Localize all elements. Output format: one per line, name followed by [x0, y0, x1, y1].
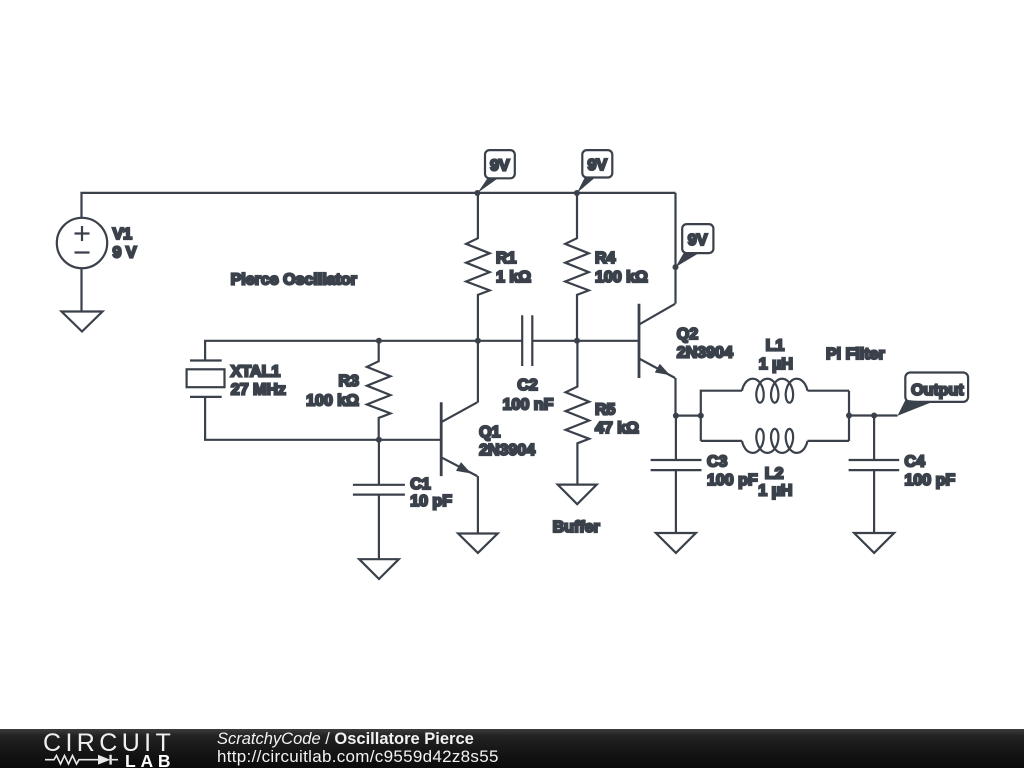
svg-text:47 kΩ: 47 kΩ [595, 420, 639, 437]
resistor R3 [367, 341, 391, 440]
crystal XTAL1 [187, 361, 225, 397]
wire XTAL1 bottom [205, 397, 441, 440]
flag Output [898, 373, 969, 416]
ground under C1 [359, 559, 399, 579]
flag 9V at R4 [577, 150, 612, 193]
voltage source V1 [57, 218, 107, 268]
svg-text:9V: 9V [588, 157, 608, 174]
node Q2 collector flag [673, 264, 679, 270]
svg-text:2N3904: 2N3904 [479, 442, 535, 459]
wire top rail [82, 193, 676, 218]
svg-text:27 MHz: 27 MHz [231, 381, 286, 398]
svg-text:Output: Output [911, 382, 964, 399]
svg-text:L1: L1 [766, 338, 785, 355]
svg-text:Q2: Q2 [677, 326, 698, 343]
CircuitLab logo LAB [125, 751, 175, 768]
ground under R5 [558, 485, 597, 505]
pi filter left branch [701, 391, 742, 441]
node top rail R4 [574, 190, 580, 196]
wire mid bus right of C2 [532, 340, 639, 342]
footer bar [0, 729, 1024, 768]
pi filter top right wire [808, 390, 850, 392]
svg-text:Pierce Oscillator: Pierce Oscillator [231, 272, 357, 289]
capacitor C1 [353, 440, 405, 559]
capacitor C3 [651, 416, 702, 533]
svg-text:100 kΩ: 100 kΩ [595, 269, 648, 286]
svg-text:1 µH: 1 µH [758, 482, 792, 499]
wire Q2 emitter down [674, 378, 676, 416]
transistor Q1 [441, 341, 478, 534]
pi filter bottom right wire [808, 440, 850, 442]
svg-text:Buffer: Buffer [553, 519, 600, 536]
svg-text:L2: L2 [765, 465, 784, 482]
footer title line [217, 730, 474, 749]
svg-text:100 pF: 100 pF [707, 472, 758, 489]
svg-text:C3: C3 [707, 453, 728, 470]
ground under C3 [656, 533, 696, 553]
node mid bus R3 top [376, 338, 382, 344]
node mid bus Q1 collector [475, 338, 481, 344]
capacitor C2 [522, 315, 532, 366]
svg-text:Q1: Q1 [479, 424, 500, 441]
flag 9V at Q2 [676, 224, 714, 267]
ground under C4 [854, 533, 894, 553]
inductor L1 [742, 379, 808, 403]
svg-text:9 V: 9 V [113, 244, 137, 261]
node pi filter right [846, 413, 852, 419]
svg-text:R3: R3 [339, 373, 360, 390]
svg-text:2N3904: 2N3904 [677, 344, 733, 361]
svg-text:Pi Filter: Pi Filter [826, 346, 885, 363]
footer url line [217, 747, 499, 767]
svg-text:1 kΩ: 1 kΩ [496, 269, 531, 286]
wire output [849, 414, 898, 416]
resistor R5 [566, 341, 590, 485]
capacitor C4 [849, 416, 900, 534]
node mid bus R4-R5 [574, 338, 580, 344]
flag 9V at R1 [477, 150, 514, 193]
svg-text:100 pF: 100 pF [905, 472, 956, 489]
node top rail R1 [474, 190, 480, 196]
CircuitLab logo symbol [40, 750, 185, 768]
wire emitter junction [676, 415, 701, 417]
resistor R1 [466, 193, 490, 341]
svg-text:100 kΩ: 100 kΩ [306, 392, 359, 409]
svg-text:9V: 9V [688, 232, 708, 249]
svg-text:9V: 9V [490, 157, 510, 174]
svg-text:1 µH: 1 µH [759, 356, 793, 373]
svg-text:C2: C2 [517, 377, 538, 394]
svg-text:R5: R5 [595, 401, 616, 418]
wire mid bus left [205, 341, 522, 361]
CircuitLab logo text [43, 729, 175, 758]
svg-text:V1: V1 [113, 226, 133, 243]
pi filter right branch [848, 391, 850, 441]
svg-text:XTAL1: XTAL1 [231, 363, 281, 380]
ground under Q1 [458, 534, 498, 553]
ground under V1 [62, 312, 103, 332]
wire V1 to ground [80, 268, 82, 311]
inductor L2 [742, 429, 808, 453]
svg-text:10 pF: 10 pF [410, 493, 452, 510]
svg-text:C1: C1 [410, 476, 431, 493]
node pi filter left [698, 413, 704, 419]
pi filter bottom left wire [701, 440, 742, 442]
resistor R4 [565, 193, 589, 341]
node bottom bus R3-C1 [376, 437, 382, 443]
wire Q2 collector to rail [674, 193, 676, 304]
node C4 top [871, 413, 877, 419]
transistor Q2 [639, 304, 675, 378]
node C3 top [673, 413, 679, 419]
svg-text:C4: C4 [905, 453, 926, 470]
svg-text:R1: R1 [496, 250, 517, 267]
svg-text:R4: R4 [595, 250, 616, 267]
svg-text:100 nF: 100 nF [503, 396, 554, 413]
